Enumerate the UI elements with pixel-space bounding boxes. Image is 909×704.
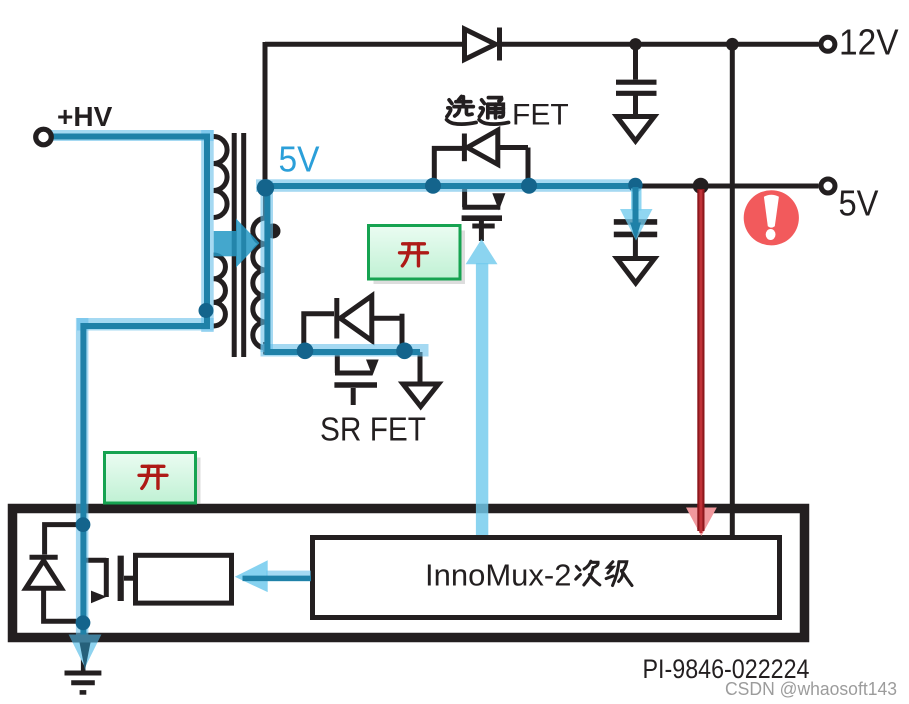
internal FET Q3 <box>86 556 133 601</box>
select FET (xuantong FET) black parts <box>434 130 528 241</box>
wire secondary to SR core <box>267 189 420 352</box>
wire long vertical to secondary controller <box>730 44 735 535</box>
svg-text:FET: FET <box>512 99 569 132</box>
terminal +HV <box>36 129 52 145</box>
terminal 5V <box>821 179 835 193</box>
select FET source arrow <box>492 193 505 210</box>
highlighted wire teal core <box>49 137 635 659</box>
wire SR net band <box>261 344 429 357</box>
wire vertical from top rail down to 5V node <box>263 42 268 188</box>
secondary controller outer box <box>13 509 805 638</box>
ground G1 lead <box>633 93 638 116</box>
terminal 12V <box>821 37 835 51</box>
transformer energy arrow <box>214 219 260 268</box>
transformer secondary winding arcs <box>253 218 266 348</box>
wire left vertical band <box>76 318 89 640</box>
select FET gate plate <box>462 215 502 221</box>
select FET gate lead <box>479 221 484 241</box>
svg-text:InnoMux-2: InnoMux-2 <box>425 558 571 593</box>
on-state box upper <box>369 226 466 285</box>
ground G3 <box>403 384 439 407</box>
wire 5V rail <box>265 184 819 189</box>
node dot primary bottom polarity <box>199 303 214 318</box>
SR FET body diode frame <box>304 314 334 352</box>
wire secondary vertical band <box>261 181 274 352</box>
junction dot top rail 1 <box>629 38 641 50</box>
driver block box <box>136 555 232 603</box>
capacitor C2 <box>614 219 657 225</box>
red feedback arrow head <box>686 508 717 537</box>
transformer T1 <box>214 133 266 357</box>
wire 5V rail core <box>261 183 635 189</box>
node dot select FET left <box>425 178 441 194</box>
internal FET Q3 source arrow <box>91 591 107 604</box>
wire top rail right segment <box>500 42 819 47</box>
node dot secondary top <box>257 179 274 196</box>
wire SR net <box>266 342 421 352</box>
warning icon <box>744 190 799 245</box>
svg-text:+HV: +HV <box>57 101 113 132</box>
highlighted wire pale bands <box>42 130 640 640</box>
svg-text:CSDN @whaosoft143: CSDN @whaosoft143 <box>725 679 897 699</box>
wire +HV horizontal band <box>42 130 214 141</box>
svg-text:SR FET: SR FET <box>320 411 426 448</box>
wire primary vertical band <box>201 130 214 332</box>
transformer core <box>232 133 237 357</box>
node dot SR right <box>396 343 413 360</box>
select FET channel <box>462 189 467 207</box>
node dot 5V cap <box>628 178 642 192</box>
ground G1 <box>617 117 655 142</box>
label InnoMux-2 secondary <box>425 558 632 593</box>
node dot select FET right <box>521 178 537 194</box>
SR FET gate lead <box>351 388 356 405</box>
node dot clamp top <box>76 517 91 532</box>
transformer primary winding lower arcs <box>214 255 226 326</box>
ground arrow head pale <box>69 635 102 643</box>
svg-text:5V: 5V <box>839 183 879 224</box>
red feedback line <box>697 189 704 529</box>
driver arrow band <box>266 571 311 582</box>
junction dot top rail 2 <box>726 38 739 51</box>
InnoMux secondary block box <box>313 538 780 618</box>
svg-text:5V: 5V <box>279 139 320 180</box>
select FET body diode frame <box>434 148 462 183</box>
label select FET <box>447 96 569 131</box>
transformer primary winding upper arcs <box>214 137 228 218</box>
5V cap down arrow <box>620 189 653 241</box>
node dot clamp bottom <box>76 615 91 630</box>
ground G4 earth <box>65 642 102 692</box>
SR FET channel <box>335 354 340 373</box>
junction dot 5V red tap <box>693 178 709 194</box>
on-state box lower <box>105 453 201 505</box>
SR FET circuit black parts <box>266 296 439 407</box>
SR FET source arrow <box>366 360 379 376</box>
gate drive up arrow <box>466 239 498 535</box>
wire 5V rail band <box>256 179 640 192</box>
capacitor C1 lead <box>633 44 638 79</box>
ground G2 <box>617 259 655 284</box>
diode D1 <box>465 29 496 60</box>
wire lower horizontal band <box>77 318 214 331</box>
svg-text:12V: 12V <box>839 22 899 63</box>
wire secondary top lead <box>263 185 268 220</box>
capacitor C1 <box>616 80 657 85</box>
ground G2 lead <box>633 234 638 258</box>
wire +HV to primary to bottom core <box>49 137 207 659</box>
SR FET gate plate <box>334 382 377 388</box>
driver arrow head <box>235 560 268 592</box>
capacitor C2 lead <box>633 186 638 218</box>
node dot SR left <box>297 343 314 360</box>
clamp diode D3 <box>26 525 83 622</box>
transformer secondary polarity dot <box>266 224 281 239</box>
wire top rail left segment <box>265 42 464 47</box>
